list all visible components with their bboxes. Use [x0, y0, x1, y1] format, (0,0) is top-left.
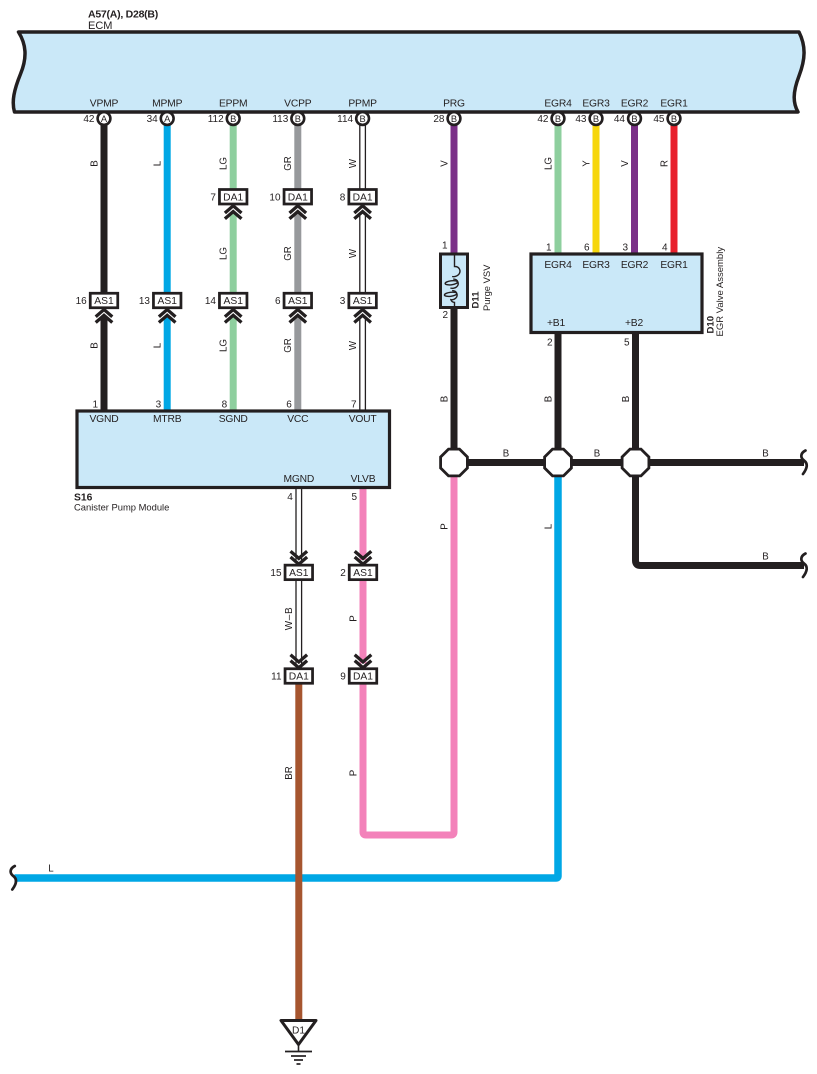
- connector DA1 pin 7: [210, 190, 247, 219]
- S16 pin number 1: [92, 400, 98, 411]
- svg-text:B: B: [555, 114, 561, 124]
- svg-text:3: 3: [622, 243, 628, 254]
- svg-text:8: 8: [222, 400, 228, 411]
- svg-text:D11: D11: [470, 291, 481, 309]
- wire W-B from S16 pin 4 MGND to DA1 11: [284, 488, 301, 664]
- svg-text:L: L: [153, 160, 164, 166]
- connector DA1 pin 9: [340, 655, 377, 683]
- break symbol right end of lower B wire: [801, 554, 806, 578]
- svg-text:V: V: [439, 160, 450, 167]
- svg-text:EGR3: EGR3: [582, 260, 610, 271]
- svg-text:B: B: [762, 448, 768, 459]
- svg-text:113: 113: [272, 114, 288, 125]
- svg-text:P: P: [348, 615, 359, 621]
- svg-text:MTRB: MTRB: [153, 414, 182, 425]
- svg-text:B: B: [543, 396, 554, 402]
- svg-text:+B2: +B2: [625, 318, 643, 329]
- svg-text:13: 13: [139, 296, 151, 307]
- label GR on wire x=297.8: [283, 156, 294, 171]
- connector AS1 pin 2: [340, 551, 377, 579]
- svg-text:V: V: [620, 160, 631, 167]
- svg-text:VCC: VCC: [287, 414, 309, 425]
- svg-text:VOUT: VOUT: [349, 414, 378, 425]
- svg-text:GR: GR: [283, 156, 294, 171]
- connector AS1 pin 6: [275, 293, 312, 322]
- label V on wire x=634.5: [620, 160, 631, 167]
- svg-text:GR: GR: [283, 338, 294, 353]
- label LG on wire x=558: [543, 157, 554, 170]
- wire B from D10 pin 2 +B1 to junction node J2: [543, 331, 558, 455]
- svg-text:LG: LG: [219, 247, 230, 260]
- ECM pin 112(B) EPPM: [208, 99, 248, 126]
- wire V from ECM pin 28(B) PRG to D11 pin 1: [451, 121, 458, 254]
- svg-text:1: 1: [442, 241, 448, 252]
- svg-text:R: R: [659, 160, 670, 167]
- svg-text:BR: BR: [284, 766, 295, 779]
- svg-text:LG: LG: [543, 157, 554, 170]
- connector AS1 pin 16: [76, 293, 118, 322]
- svg-text:W: W: [348, 158, 359, 168]
- label R on wire x=674: [659, 160, 670, 167]
- junction node J2: [545, 449, 572, 476]
- wire W from ECM pin 114(B) PPMP to S16 pin 7 VOUT: [360, 121, 366, 411]
- label LG on wire x=233.2: [219, 157, 230, 170]
- connector AS1 pin 13: [139, 293, 181, 322]
- ECM pin 43(B) EGR3: [575, 99, 610, 126]
- connector AS1 pin 3: [340, 293, 377, 322]
- wire GR from ECM pin 113(B) VCPP to S16 pin 6 VCC: [294, 121, 301, 411]
- svg-text:L: L: [48, 864, 54, 875]
- svg-text:A57(A), D28(B): A57(A), D28(B): [88, 9, 158, 21]
- EGR valve assembly D10: [531, 243, 726, 349]
- svg-text:D1: D1: [292, 1026, 305, 1037]
- svg-text:B: B: [295, 114, 301, 124]
- svg-text:EGR2: EGR2: [621, 260, 649, 271]
- svg-text:Purge VSV: Purge VSV: [481, 264, 492, 311]
- label B on wire x=104 lower: [89, 342, 100, 348]
- svg-text:B: B: [593, 114, 599, 124]
- svg-text:16: 16: [76, 296, 88, 307]
- wire L from ECM pin 34(A) MPMP to S16 pin 3 MTRB: [164, 121, 171, 411]
- svg-text:LG: LG: [219, 157, 230, 170]
- svg-text:DA1: DA1: [353, 672, 373, 683]
- svg-text:42: 42: [537, 114, 549, 125]
- svg-text:AS1: AS1: [157, 296, 177, 307]
- ECM pin 34(A) MPMP: [147, 99, 183, 126]
- svg-text:EGR2: EGR2: [621, 99, 649, 110]
- svg-text:1: 1: [92, 400, 98, 411]
- canister pump module S16: [74, 411, 390, 513]
- junction node J3: [622, 449, 649, 476]
- svg-text:AS1: AS1: [94, 296, 114, 307]
- label Y on wire x=596: [581, 160, 592, 167]
- svg-text:B: B: [631, 114, 637, 124]
- svg-text:EGR3: EGR3: [582, 99, 610, 110]
- connector AS1 pin 14: [205, 293, 247, 322]
- junction node J1: [441, 449, 468, 476]
- svg-text:DA1: DA1: [223, 192, 243, 203]
- break symbol right end of bus B: [801, 451, 806, 475]
- svg-text:MPMP: MPMP: [152, 99, 182, 110]
- svg-text:PRG: PRG: [443, 99, 465, 110]
- wire B from D10 pin 5 +B2 to junction node J3: [621, 331, 636, 455]
- ECM pin 42(B) EGR4: [537, 99, 572, 126]
- ECM pin 114(B) PPMP: [337, 99, 377, 126]
- S16 pin number 8: [222, 400, 228, 411]
- svg-text:45: 45: [653, 114, 665, 125]
- svg-text:W: W: [348, 340, 359, 350]
- ECM connector box A57(A) D28(B): [13, 9, 804, 112]
- break symbol left end of L wire: [11, 866, 16, 890]
- ECM pin 113(B) VCPP: [272, 99, 311, 126]
- label GR on wire x=297.8 mid: [283, 246, 294, 261]
- connector AS1 pin 15: [270, 551, 312, 579]
- wire B bus from node J1 through J2 J3 to right break: [454, 448, 804, 462]
- svg-text:B: B: [359, 114, 365, 124]
- svg-text:43: 43: [575, 114, 587, 125]
- svg-text:1: 1: [546, 243, 552, 254]
- svg-text:P: P: [439, 523, 450, 529]
- label LG on wire x=233.2 mid: [219, 247, 230, 260]
- connector DA1 pin 8: [340, 190, 377, 219]
- svg-text:2: 2: [547, 338, 553, 349]
- label LG on wire x=233.2 lower: [219, 339, 230, 352]
- svg-text:3: 3: [340, 296, 346, 307]
- svg-text:B: B: [503, 448, 509, 459]
- svg-text:112: 112: [208, 114, 224, 125]
- svg-text:GR: GR: [283, 246, 294, 261]
- svg-text:SGND: SGND: [219, 414, 248, 425]
- svg-text:EGR Valve Assembly: EGR Valve Assembly: [715, 247, 726, 337]
- svg-text:MGND: MGND: [283, 474, 314, 485]
- svg-text:VPMP: VPMP: [90, 99, 119, 110]
- ground D1: [281, 1021, 316, 1065]
- svg-text:EGR4: EGR4: [544, 99, 572, 110]
- svg-text:L: L: [153, 342, 164, 348]
- svg-text:4: 4: [662, 243, 668, 254]
- svg-text:DA1: DA1: [288, 192, 308, 203]
- svg-text:B: B: [89, 342, 100, 348]
- svg-text:LG: LG: [219, 339, 230, 352]
- svg-text:AS1: AS1: [353, 296, 373, 307]
- svg-text:W–B: W–B: [284, 607, 295, 630]
- svg-text:P: P: [348, 770, 359, 776]
- svg-text:B: B: [594, 448, 600, 459]
- svg-text:DA1: DA1: [289, 672, 309, 683]
- S16 pin number 3: [156, 400, 162, 411]
- ECM pin 42(A) VPMP: [83, 99, 118, 126]
- svg-text:EGR1: EGR1: [660, 99, 688, 110]
- svg-text:AS1: AS1: [289, 568, 309, 579]
- label W on wire x=362.6 lower: [348, 340, 359, 350]
- svg-text:5: 5: [351, 492, 357, 503]
- svg-text:9: 9: [340, 672, 346, 683]
- svg-text:10: 10: [269, 192, 281, 203]
- svg-text:5: 5: [624, 338, 630, 349]
- svg-text:6: 6: [275, 296, 281, 307]
- svg-text:A: A: [164, 114, 171, 124]
- wire L from node J2 down then left to break: [15, 474, 559, 878]
- connector DA1 pin 10: [269, 190, 311, 219]
- svg-text:B: B: [89, 160, 100, 166]
- label L on wire x=167.2: [153, 160, 164, 166]
- svg-text:Canister Pump Module: Canister Pump Module: [74, 502, 169, 513]
- svg-text:2: 2: [340, 568, 346, 579]
- svg-text:B: B: [439, 396, 450, 402]
- svg-text:DA1: DA1: [353, 192, 373, 203]
- svg-text:15: 15: [270, 568, 282, 579]
- solenoid valve D11 Purge VSV: [441, 241, 493, 322]
- wire LG from ECM pin 112(B) EPPM to S16 pin 8 SGND: [230, 121, 237, 411]
- svg-text:6: 6: [286, 400, 292, 411]
- svg-text:8: 8: [340, 192, 346, 203]
- svg-text:EPPM: EPPM: [219, 99, 247, 110]
- svg-text:VCPP: VCPP: [284, 99, 312, 110]
- label GR on wire x=297.8 lower: [283, 338, 294, 353]
- svg-text:B: B: [671, 114, 677, 124]
- svg-text:B: B: [451, 114, 457, 124]
- svg-text:ECM: ECM: [88, 20, 112, 32]
- svg-text:11: 11: [271, 672, 282, 683]
- svg-text:B: B: [621, 396, 632, 402]
- label V on wire x=454: [439, 160, 450, 167]
- S16 pin number 7: [351, 400, 357, 411]
- svg-text:44: 44: [614, 114, 626, 125]
- svg-text:VLVB: VLVB: [351, 474, 376, 485]
- svg-text:34: 34: [147, 114, 159, 125]
- svg-text:28: 28: [433, 114, 445, 125]
- svg-text:B: B: [762, 551, 768, 562]
- svg-text:14: 14: [205, 296, 217, 307]
- wire Y from ECM pin 43(B) EGR3 to D10 pin 6: [593, 121, 600, 254]
- svg-text:EGR4: EGR4: [544, 260, 572, 271]
- svg-text:L: L: [543, 523, 554, 529]
- svg-text:Y: Y: [581, 160, 592, 167]
- wire B from D11 pin 2 to junction node J1: [439, 306, 454, 455]
- wire P from S16 pin 5 VLVB through AS1 2 DA1 9 and up to node J1: [348, 474, 454, 835]
- svg-text:7: 7: [351, 400, 357, 411]
- svg-text:3: 3: [156, 400, 162, 411]
- wire B from ECM pin 42(A) VPMP to S16 pin 1 VGND: [101, 121, 108, 411]
- label W on wire x=362.6: [348, 158, 359, 168]
- label B on wire x=104: [89, 160, 100, 166]
- svg-text:W: W: [348, 248, 359, 258]
- S16 pin number 6: [286, 400, 292, 411]
- svg-text:4: 4: [287, 492, 293, 503]
- svg-text:AS1: AS1: [223, 296, 243, 307]
- ECM pin 45(B) EGR1: [653, 99, 688, 126]
- label L on wire x=167.2 lower: [153, 342, 164, 348]
- svg-text:AS1: AS1: [353, 568, 373, 579]
- connector DA1 pin 11: [271, 655, 312, 683]
- wire B from node J3 down and right to break: [636, 474, 805, 566]
- svg-text:VGND: VGND: [90, 414, 119, 425]
- ECM pin 44(B) EGR2: [614, 99, 649, 126]
- svg-text:B: B: [230, 114, 236, 124]
- svg-text:42: 42: [83, 114, 95, 125]
- wire BR from DA1 11 to ground D1: [284, 683, 299, 1021]
- svg-text:AS1: AS1: [288, 296, 308, 307]
- svg-text:2: 2: [442, 310, 448, 321]
- wire R from ECM pin 45(B) EGR1 to D10 pin 4: [671, 121, 678, 254]
- wire V from ECM pin 44(B) EGR2 to D10 pin 3: [631, 121, 638, 254]
- svg-text:7: 7: [210, 192, 216, 203]
- wire LG from ECM pin 42(B) EGR4 to D10 pin 1: [555, 121, 562, 254]
- svg-text:PPMP: PPMP: [348, 99, 377, 110]
- svg-text:+B1: +B1: [547, 318, 565, 329]
- ECM pin 28(B) PRG: [433, 99, 465, 126]
- svg-text:EGR1: EGR1: [660, 260, 688, 271]
- svg-text:6: 6: [584, 243, 590, 254]
- svg-text:A: A: [101, 114, 108, 124]
- label W on wire x=362.6 mid: [348, 248, 359, 258]
- svg-text:114: 114: [337, 114, 353, 125]
